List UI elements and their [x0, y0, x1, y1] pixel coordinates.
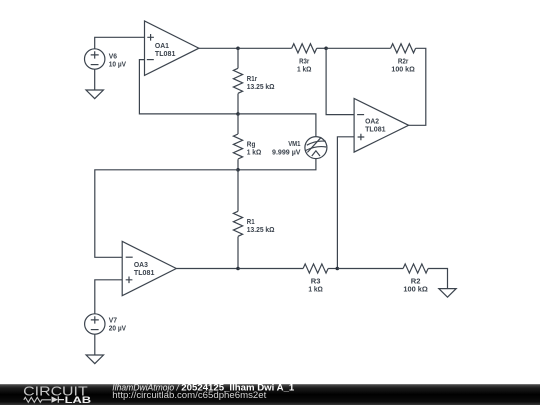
resistor R1	[233, 211, 274, 236]
node C	[236, 112, 240, 116]
node F	[336, 267, 340, 271]
footer bar	[0, 384, 540, 405]
resistor R3r	[292, 44, 317, 74]
op-amp OA1	[145, 21, 199, 75]
ground at R2	[439, 289, 456, 298]
CircuitLab logo resistor zigzag	[24, 397, 51, 402]
wire OA1 output to node A	[199, 47, 238, 49]
resistor R2	[403, 264, 428, 294]
resistor Rg	[233, 134, 261, 159]
CircuitLab logo diode	[52, 396, 59, 402]
svg-text:TL081: TL081	[155, 49, 176, 58]
ground under V7	[86, 355, 103, 364]
svg-text:1 kΩ: 1 kΩ	[247, 148, 261, 157]
svg-text:TL081: TL081	[134, 268, 155, 277]
wire Rg leads	[237, 114, 239, 170]
wire node A to R3r	[238, 47, 292, 49]
svg-text:100 kΩ: 100 kΩ	[403, 285, 428, 294]
wire node B down to OA2 inverting input	[326, 48, 354, 114]
wire VM1 bottom to node D	[238, 159, 316, 170]
svg-text:13.25 kΩ: 13.25 kΩ	[247, 82, 275, 91]
svg-text:10 µV: 10 µV	[109, 59, 127, 68]
voltmeter VM1	[272, 137, 327, 159]
wire node C to VM1 top	[238, 114, 316, 137]
wire node B to R2r	[326, 47, 391, 49]
node E	[236, 267, 240, 271]
resistor R3	[303, 264, 328, 294]
resistor R1r	[233, 68, 274, 93]
node B	[324, 47, 328, 51]
svg-text:TL081: TL081	[365, 125, 386, 134]
wire node D left to OA3 inverting input	[95, 170, 238, 257]
svg-text:LAB: LAB	[65, 395, 92, 405]
svg-text:1 kΩ: 1 kΩ	[308, 285, 323, 294]
svg-text:20 µV: 20 µV	[109, 324, 127, 333]
wire node F to R2	[337, 268, 403, 270]
voltage source V7	[85, 314, 127, 334]
wire node E to R3	[238, 268, 303, 270]
ground under V6	[86, 90, 103, 99]
wire R1r leads	[237, 48, 239, 114]
wire OA3 non-inverting input to V7	[95, 280, 122, 314]
op-amp OA2	[354, 99, 409, 153]
svg-text:13.25 kΩ: 13.25 kΩ	[247, 225, 275, 234]
wire V6 top to OA1 plus input	[95, 37, 145, 49]
wire R2 to ground	[428, 269, 447, 289]
svg-text:100 kΩ: 100 kΩ	[391, 65, 414, 74]
wire OA2 non-inverting input down to node F	[337, 137, 354, 269]
op-amp OA3	[122, 241, 176, 295]
wire R2r to OA2 output	[409, 48, 426, 125]
wire R3r to node B	[317, 47, 326, 49]
node A	[236, 47, 240, 51]
resistor R2r	[391, 44, 416, 74]
wire R3 to node F	[328, 268, 337, 270]
svg-text:9.999 µV: 9.999 µV	[272, 147, 301, 156]
wire V6 bottom to ground	[94, 69, 96, 90]
svg-text:http://circuitlab.com/c65dphe6: http://circuitlab.com/c65dphe6ms2et	[112, 390, 267, 400]
node D	[236, 168, 240, 172]
wire OA1 inverting feedback down-right	[139, 60, 238, 114]
wire OA3 output to node E	[176, 268, 238, 270]
svg-text:1 kΩ: 1 kΩ	[297, 65, 312, 74]
wire R1 leads	[237, 170, 239, 269]
wire V7 bottom to ground	[94, 334, 96, 355]
voltage source V6	[85, 49, 127, 69]
